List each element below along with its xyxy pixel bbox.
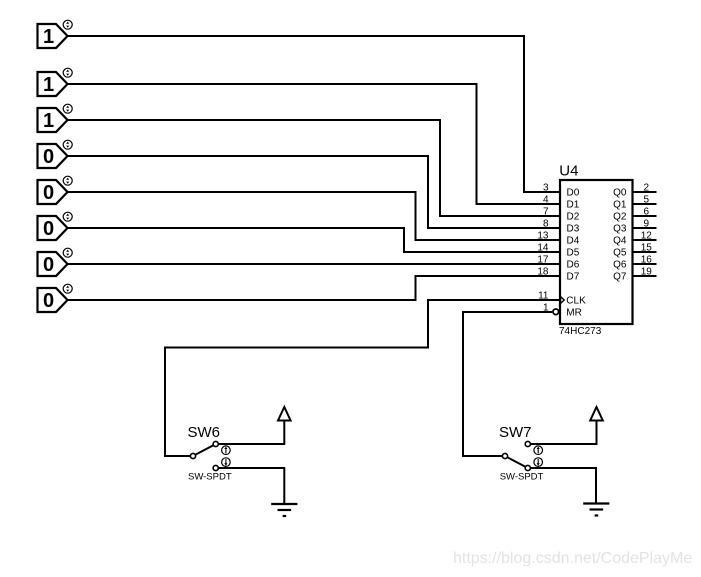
SW7 pole contact bbox=[502, 453, 507, 458]
SW7 actuator up bbox=[534, 446, 543, 455]
svg-text:3: 3 bbox=[543, 182, 549, 193]
power symbol (SW7) bbox=[590, 407, 603, 421]
svg-text:4: 4 bbox=[543, 194, 549, 205]
logic state input P3 value 1 bbox=[38, 104, 73, 132]
pin stub Q6 (pin 16) bbox=[633, 263, 657, 265]
SW6 actuator down bbox=[222, 458, 231, 467]
wire: SW6 top throw to power bbox=[218, 420, 284, 444]
wire: P1 to U4 D0 (pin 3) bbox=[68, 36, 561, 192]
logic state input P8 value 0 bbox=[38, 284, 73, 312]
pin stub Q5 (pin 15) bbox=[633, 251, 657, 253]
svg-text:D7: D7 bbox=[567, 272, 580, 283]
switch SW6 (SPDT) bbox=[188, 424, 232, 482]
svg-text:0: 0 bbox=[43, 290, 54, 312]
svg-text:SW-SPDT: SW-SPDT bbox=[188, 471, 232, 482]
logic state input P2 value 1 bbox=[38, 68, 73, 96]
svg-text:6: 6 bbox=[644, 206, 650, 217]
logic state input P1 value 1 bbox=[38, 20, 73, 48]
logic state input P4 value 0 bbox=[38, 140, 73, 168]
svg-text:Q3: Q3 bbox=[613, 224, 627, 235]
svg-text:14: 14 bbox=[537, 242, 549, 253]
svg-text:Q4: Q4 bbox=[613, 236, 627, 247]
pin stub Q2 (pin 6) bbox=[633, 215, 657, 217]
wire: P4 to U4 D3 (pin 8) bbox=[68, 156, 561, 228]
svg-text:0: 0 bbox=[43, 146, 54, 168]
svg-text:CLK: CLK bbox=[566, 296, 586, 307]
SW6 actuator up bbox=[222, 446, 231, 455]
svg-text:Q5: Q5 bbox=[613, 248, 627, 259]
svg-text:13: 13 bbox=[537, 230, 549, 241]
pin stub Q7 (pin 19) bbox=[633, 275, 657, 277]
clock wedge on CLK pin bbox=[561, 297, 565, 304]
SW6 bottom throw contact bbox=[213, 465, 218, 470]
pin stub Q1 (pin 5) bbox=[633, 203, 657, 205]
svg-text:D6: D6 bbox=[567, 260, 580, 271]
svg-text:D5: D5 bbox=[567, 248, 580, 259]
svg-text:SW6: SW6 bbox=[188, 424, 221, 441]
svg-text:SW7: SW7 bbox=[499, 424, 532, 441]
svg-text:0: 0 bbox=[43, 182, 54, 204]
wire: P7 to U4 D6 (pin 17) bbox=[68, 263, 561, 265]
SW7 top throw contact bbox=[525, 441, 530, 446]
wire: P6 to U4 D5 (pin 14) bbox=[68, 228, 561, 252]
svg-text:16: 16 bbox=[641, 254, 653, 265]
svg-text:Q7: Q7 bbox=[613, 272, 627, 283]
svg-text:2: 2 bbox=[644, 182, 650, 193]
SW6 pole contact bbox=[190, 453, 195, 458]
ground symbol (SW7) bbox=[583, 504, 609, 516]
logic state input P7 value 0 bbox=[38, 248, 73, 276]
wire: U4 CLK (pin 11) to SW6 pole bbox=[165, 300, 560, 456]
wire: SW7 bottom throw to ground bbox=[530, 468, 596, 504]
svg-text:D0: D0 bbox=[567, 188, 580, 199]
wire: P5 to U4 D4 (pin 13) bbox=[68, 192, 561, 240]
svg-text:Q2: Q2 bbox=[613, 212, 627, 223]
svg-text:D4: D4 bbox=[567, 236, 580, 247]
logic state input P6 value 0 bbox=[38, 212, 73, 240]
wire: SW6 bottom throw to ground bbox=[218, 468, 284, 504]
svg-text:7: 7 bbox=[543, 206, 549, 217]
svg-text:https://blog.csdn.net/CodePlay: https://blog.csdn.net/CodePlayMe bbox=[453, 550, 692, 567]
svg-text:SW-SPDT: SW-SPDT bbox=[500, 471, 544, 482]
SW7 bottom throw contact bbox=[525, 465, 530, 470]
svg-text:1: 1 bbox=[43, 26, 54, 48]
svg-text:74HC273: 74HC273 bbox=[559, 326, 602, 337]
svg-text:9: 9 bbox=[644, 218, 650, 229]
svg-text:D1: D1 bbox=[567, 200, 580, 211]
SW6 lever (thrown up) bbox=[195, 445, 213, 455]
svg-text:1: 1 bbox=[43, 110, 54, 132]
svg-text:D2: D2 bbox=[567, 212, 580, 223]
svg-text:D3: D3 bbox=[567, 224, 580, 235]
ground symbol (SW6) bbox=[271, 504, 297, 516]
switch SW7 (SPDT) bbox=[499, 424, 544, 482]
svg-text:Q0: Q0 bbox=[613, 188, 627, 199]
svg-text:Q6: Q6 bbox=[613, 260, 627, 271]
svg-text:0: 0 bbox=[43, 218, 54, 240]
pin stub Q0 (pin 2) bbox=[633, 191, 657, 193]
wire: U4 MR (pin 1) to SW7 pole bbox=[463, 312, 552, 456]
inversion bubble on MR pin bbox=[553, 309, 559, 315]
svg-text:1: 1 bbox=[43, 74, 54, 96]
svg-text:19: 19 bbox=[641, 266, 653, 277]
SW7 actuator down bbox=[534, 458, 543, 467]
svg-text:5: 5 bbox=[644, 194, 650, 205]
svg-text:MR: MR bbox=[566, 308, 582, 319]
wire: P3 to U4 D2 (pin 7) bbox=[68, 120, 561, 216]
svg-text:18: 18 bbox=[537, 266, 549, 277]
svg-text:Q1: Q1 bbox=[613, 200, 627, 211]
IC U4 body bbox=[560, 180, 633, 324]
wire: SW7 top throw to power bbox=[530, 420, 596, 444]
svg-text:12: 12 bbox=[641, 230, 653, 241]
wire: P8 to U4 D7 (pin 18) bbox=[68, 276, 561, 300]
SW6 top throw contact bbox=[213, 441, 218, 446]
pin stub Q3 (pin 9) bbox=[633, 227, 657, 229]
power symbol (SW6) bbox=[278, 407, 291, 421]
svg-text:U4: U4 bbox=[559, 163, 578, 180]
svg-text:8: 8 bbox=[543, 218, 549, 229]
SW7 lever (thrown down) bbox=[507, 457, 525, 467]
svg-text:15: 15 bbox=[641, 242, 653, 253]
pin stub Q4 (pin 12) bbox=[633, 239, 657, 241]
logic state input P5 value 0 bbox=[38, 176, 73, 204]
svg-text:0: 0 bbox=[43, 254, 54, 276]
svg-text:17: 17 bbox=[537, 254, 549, 265]
wire: P2 to U4 D1 (pin 4) bbox=[68, 84, 561, 204]
